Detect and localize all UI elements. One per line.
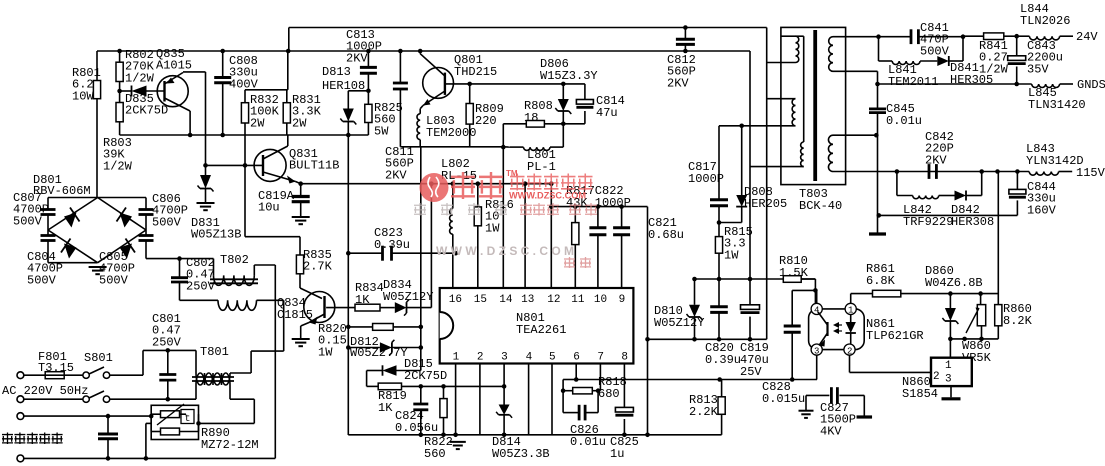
svg-text:1W: 1W — [724, 248, 739, 262]
wire pin1 to ground rail — [453, 364, 458, 438]
capacitor C807 — [13, 191, 98, 230]
resistor R819 — [367, 383, 421, 415]
svg-text:1K: 1K — [355, 293, 370, 307]
thermistor R890 lower element — [149, 414, 254, 435]
node Q831 base / R832 junction — [243, 163, 248, 168]
svg-text:2.2K: 2.2K — [689, 405, 719, 419]
pin numbers bottom row 1-8 — [453, 352, 628, 364]
resistor R803 — [103, 91, 133, 173]
svg-text:W W W . D Z S C . C O M: W W W . D Z S C . C O M — [436, 244, 574, 258]
wire secondary common column x=877.5 — [877, 84, 879, 233]
svg-text:TLN31420: TLN31420 — [1028, 98, 1086, 112]
inductor L802 (pin16) — [441, 157, 477, 288]
svg-text:2W: 2W — [292, 116, 307, 130]
ground below C819A — [292, 217, 310, 224]
inductor L845 — [1028, 84, 1086, 112]
svg-text:D813: D813 — [322, 65, 351, 79]
resistor R815 — [715, 223, 752, 280]
svg-text:T801: T801 — [200, 345, 229, 359]
svg-text:13: 13 — [521, 294, 534, 306]
svg-text:WWW.DZSC.COM: WWW.DZSC.COM — [509, 191, 586, 201]
resistor R831 — [283, 90, 321, 135]
wire Q835/Q831 base line (y=165.4) — [206, 164, 264, 166]
transformer T803 winding W5 115V secondary — [828, 133, 896, 172]
wire top rail (y=27.5) — [289, 28, 767, 52]
zener D831 — [191, 165, 241, 241]
label GNDS output — [1077, 78, 1105, 92]
zener D834 — [380, 181, 434, 315]
svg-text:3: 3 — [945, 374, 952, 386]
resistor R822 — [424, 386, 453, 461]
svg-text:3: 3 — [814, 346, 819, 356]
svg-text:YLN3142D: YLN3142D — [1026, 154, 1084, 168]
pin numbers top row 16-9 — [449, 294, 625, 306]
svg-text:500V: 500V — [13, 214, 43, 228]
wire aux rail (y=279) — [692, 277, 815, 282]
wire W2 bottom to D808/C817 — [719, 124, 796, 129]
wire W4 bottom to GNDS column — [833, 71, 880, 86]
zener D813 — [322, 65, 368, 137]
potentiometer W860 — [962, 294, 992, 365]
transformer T801 core — [192, 377, 234, 381]
svg-text:500V: 500V — [920, 44, 950, 58]
svg-text:680: 680 — [598, 387, 620, 401]
wire R801 column x=97 (B+ to bridge +) — [96, 51, 98, 198]
capacitor C842 — [925, 130, 954, 179]
svg-text:1/2W: 1/2W — [125, 71, 155, 85]
svg-text:1W: 1W — [485, 221, 500, 235]
svg-text:2KV: 2KV — [925, 153, 947, 167]
svg-text:S1854: S1854 — [902, 387, 938, 401]
capacitor C822 (pin10) — [589, 204, 606, 288]
wire W1 top to W3 top — [796, 36, 804, 142]
svg-text:2KV: 2KV — [667, 76, 689, 90]
wire 24V line (y=36) — [876, 34, 910, 39]
wire degauss lower line — [24, 423, 275, 460]
wire T802 right drop to degauss line — [274, 265, 276, 458]
bridge diode upper-right — [117, 208, 133, 228]
transformer T801 lower winding — [196, 373, 254, 423]
wire degauss upper line — [24, 415, 151, 417]
regulator N860 S1854 — [902, 339, 972, 401]
node C819A/R835 at emitter — [298, 181, 303, 186]
svg-text:500V: 500V — [99, 273, 129, 287]
node R802 top — [117, 49, 122, 54]
wire Q801 base line (y=83.9) — [445, 83, 585, 85]
wire aux ground rail (y=339.3) — [648, 338, 767, 340]
resistor R809 — [466, 82, 504, 147]
capacitor C808 — [214, 49, 258, 138]
svg-text:18: 18 — [524, 111, 538, 125]
watermark dzsc.com — [414, 169, 597, 268]
transistor Q831 — [254, 135, 339, 184]
hot ground below N860 pin3 — [942, 386, 961, 399]
capacitor C823 — [346, 226, 458, 261]
optocoupler phototransistor — [818, 312, 842, 347]
svg-text:15: 15 — [474, 294, 487, 306]
capacitor C844 — [877, 172, 1057, 218]
zener D860 — [925, 264, 983, 341]
thermistor R890 upper element — [151, 404, 194, 425]
node R802/R803/D835 junction — [117, 89, 122, 94]
svg-text:GNDS: GNDS — [1077, 78, 1105, 92]
wire 115V line (y=171.5) — [895, 169, 1030, 174]
svg-text:BCK-40: BCK-40 — [799, 199, 842, 213]
svg-text:16: 16 — [449, 294, 462, 306]
svg-text:TLP621GR: TLP621GR — [866, 329, 924, 343]
wire R861 output node — [948, 291, 998, 296]
svg-text:0.39u: 0.39u — [374, 238, 410, 252]
svg-text:2CK75D: 2CK75D — [404, 369, 447, 383]
transistor Q801 — [418, 49, 497, 109]
degauss bottom terminal — [17, 455, 24, 462]
svg-text:0.01u: 0.01u — [886, 114, 922, 128]
svg-text:2W: 2W — [250, 116, 265, 130]
resistor R802 — [116, 48, 155, 91]
wire pin3 feed line (y=386.4) — [419, 384, 507, 389]
svg-text:10W: 10W — [72, 89, 94, 103]
capacitor C801 — [152, 312, 182, 402]
wire Q831 emitter rail (y=183.7) — [301, 183, 552, 185]
ground below D831 — [197, 203, 215, 210]
capacitor C841 — [911, 21, 963, 58]
zener D812 — [346, 335, 423, 360]
svg-text:9: 9 — [619, 294, 626, 306]
optocoupler LED — [846, 314, 856, 344]
diode D835 — [120, 86, 169, 118]
IC N801 TEA2261 body — [440, 288, 634, 364]
resistor R817 (pin11) — [572, 204, 579, 288]
resistor R834 — [355, 281, 384, 311]
wire pin5 stub — [551, 364, 553, 435]
svg-text:115V: 115V — [1076, 166, 1105, 180]
inductor L841 + diode D841 branch — [879, 34, 994, 89]
svg-text:0.056u: 0.056u — [395, 421, 438, 435]
bridge diode lower-left — [61, 239, 77, 259]
optocoupler N861 body — [809, 309, 924, 350]
svg-text:0.39u: 0.39u — [705, 353, 741, 367]
transformer T803 winding W1 primary upper — [767, 36, 799, 62]
svg-text:W05Z12Y: W05Z12Y — [383, 290, 433, 304]
wire Q801 emitter rail (y=146.8) — [400, 146, 510, 148]
wire AC upper to C801/T801 — [110, 350, 196, 375]
zener D810 — [654, 279, 704, 342]
capacitor C827 — [806, 387, 872, 438]
svg-text:1: 1 — [945, 360, 952, 372]
wire pin14 riser — [501, 124, 506, 288]
svg-text:AC 220V 50Hz: AC 220V 50Hz — [2, 384, 88, 398]
transformer T802 primary winding — [214, 253, 276, 285]
svg-text:t: t — [185, 414, 191, 425]
bridge diode lower-right — [120, 239, 136, 259]
ground at C827 left — [799, 395, 814, 418]
resistor R816 (pin15) — [474, 181, 514, 288]
svg-text:1K: 1K — [378, 401, 393, 415]
resistor R835 — [296, 248, 332, 274]
svg-text:5W: 5W — [374, 124, 389, 138]
svg-text:T3.15: T3.15 — [38, 361, 74, 375]
svg-text:2KV: 2KV — [385, 168, 407, 182]
node D831 junction — [203, 163, 208, 168]
capacitor C820 — [705, 279, 741, 367]
wire pin12 riser — [549, 181, 554, 288]
svg-text:220: 220 — [475, 114, 497, 128]
thermistor R890 box — [151, 405, 258, 452]
transformer T803 winding W2 feedback — [767, 99, 796, 126]
svg-text:3: 3 — [501, 352, 508, 364]
svg-text:W04Z6.8B: W04Z6.8B — [925, 276, 983, 290]
svg-text:7: 7 — [597, 352, 604, 364]
svg-text:2CK75D: 2CK75D — [125, 104, 168, 118]
wire GNDS line (y=84) — [878, 83, 1032, 85]
inductor L801 — [510, 124, 563, 174]
svg-text:0.015u: 0.015u — [762, 392, 805, 406]
wire T802 secondary to T801 link — [251, 300, 284, 351]
wire Q835 emitter to D831/Q831 base node — [183, 72, 206, 165]
inductor L842 + diode D842 branch — [897, 172, 994, 230]
svg-text:2.7K: 2.7K — [303, 260, 333, 274]
wire W860 wiper rail (y=338.9) — [950, 337, 983, 342]
resistor R841 — [963, 33, 1017, 77]
svg-text:TRF9229: TRF9229 — [903, 215, 953, 229]
capacitor C812 — [667, 25, 696, 90]
diode D808 — [717, 126, 788, 225]
capacitor across degauss lines — [98, 414, 118, 461]
svg-text:500V: 500V — [27, 273, 57, 287]
AC terminal lower — [17, 396, 24, 403]
svg-text:TEA2261: TEA2261 — [516, 323, 566, 337]
capacitor C811 — [385, 49, 414, 183]
wire pin13 riser — [523, 181, 528, 288]
transformer T802 secondary winding — [180, 300, 284, 310]
label AC 220V 50Hz — [2, 384, 88, 398]
label 24V output — [1076, 30, 1098, 44]
svg-text:0.68u: 0.68u — [648, 228, 684, 242]
svg-text:0.01u: 0.01u — [570, 435, 606, 449]
svg-text:1/2W: 1/2W — [979, 62, 1009, 76]
wire control rail (y=135) R803 to R825 — [120, 134, 369, 136]
wire opto pin2 to N860 pin2 — [850, 355, 932, 372]
fuse F801 — [24, 350, 74, 379]
resistor R861 — [866, 262, 950, 297]
inductor L843 — [1026, 142, 1084, 175]
svg-text:1.5K: 1.5K — [779, 266, 809, 280]
wire R832 to R835 link — [245, 165, 300, 255]
transistor Q835 — [156, 47, 192, 135]
wire R831/R832 top tie (y=89.8) — [245, 49, 291, 90]
inductor L844 — [1014, 2, 1073, 40]
svg-text:TEM2000: TEM2000 — [426, 126, 476, 140]
capacitor C817 — [688, 126, 728, 223]
svg-text:500V: 500V — [152, 215, 182, 229]
wire pin2 stub — [479, 364, 481, 435]
transformer T803 frame — [781, 27, 846, 213]
capacitor C819 — [740, 279, 769, 379]
svg-text:TLN2026: TLN2026 — [1020, 14, 1070, 28]
optocoupler pin 3 circle — [811, 344, 822, 356]
svg-text:BULT11B: BULT11B — [289, 159, 339, 173]
ground at bridge bottom — [89, 267, 107, 274]
capacitor C845 — [869, 102, 922, 128]
wire B+ drop to W3 (x=750) — [749, 51, 751, 279]
svg-text:A1015: A1015 — [156, 59, 192, 73]
svg-text:2KV: 2KV — [346, 51, 368, 65]
svg-text:4KV: 4KV — [820, 424, 842, 438]
capacitor C843 — [1008, 36, 1063, 86]
optocoupler pin 1 circle — [845, 303, 856, 315]
wire IC ground rail (y=434.8) — [348, 433, 721, 438]
svg-text:10u: 10u — [258, 201, 280, 215]
hot ground bar at secondary common — [869, 232, 886, 235]
capacitor C802 — [171, 256, 216, 300]
svg-text:11: 11 — [571, 294, 585, 306]
wire opto pin4 riser — [816, 290, 818, 303]
capacitor C824 — [395, 386, 438, 435]
svg-text:24V: 24V — [1076, 30, 1098, 44]
wire primary ground column x=766.7 — [766, 28, 768, 340]
svg-text:TEM2011: TEM2011 — [888, 75, 938, 89]
capacitor C806 — [98, 192, 188, 230]
switch S801 upper — [64, 351, 113, 378]
transformer T803 core — [813, 30, 817, 181]
svg-text:W05Z12Y: W05Z12Y — [654, 316, 704, 330]
svg-text:8.2K: 8.2K — [1003, 314, 1033, 328]
capacitor C814 — [563, 84, 625, 124]
transistor Q834 — [277, 274, 335, 339]
bridge rectifier D801 diamond — [33, 173, 146, 263]
capacitor C825 (pin8) — [610, 364, 639, 462]
svg-text:W15Z3.3Y: W15Z3.3Y — [540, 69, 598, 83]
svg-text:C1815: C1815 — [277, 308, 313, 322]
resistor R820 — [318, 322, 423, 359]
diode D815 — [367, 357, 448, 386]
transformer T802 core — [210, 279, 258, 283]
resistor R825 — [365, 91, 403, 139]
node Q835 collector on rail — [188, 133, 193, 138]
ground below Q834 emitter — [292, 339, 310, 346]
capacitor C813 — [346, 28, 382, 93]
svg-text:2: 2 — [933, 371, 940, 383]
svg-text:47u: 47u — [596, 106, 618, 120]
resistor R818 (pins 6-7) — [561, 364, 627, 402]
bridge diode upper-left — [64, 208, 80, 228]
optocoupler pin 4 circle — [811, 303, 822, 315]
ground at pin1 — [450, 442, 466, 449]
svg-text:1/2W: 1/2W — [103, 159, 133, 173]
svg-text:1000P: 1000P — [688, 172, 724, 186]
optocoupler pin 2 circle — [844, 344, 855, 356]
transformer T803 winding W3 primary lower — [750, 142, 804, 167]
resistor R813 — [689, 380, 725, 435]
capacitor C826 — [563, 391, 606, 449]
wire Q834 base line — [326, 307, 355, 309]
svg-text:T802: T802 — [220, 253, 249, 267]
svg-text:5: 5 — [549, 352, 556, 364]
svg-text:S801: S801 — [84, 351, 113, 365]
svg-text:12: 12 — [547, 294, 560, 306]
resistor R810 — [779, 254, 818, 303]
svg-text:MZ72-12M: MZ72-12M — [201, 438, 259, 452]
svg-text:25V: 25V — [740, 365, 762, 379]
resistor R801 — [72, 66, 101, 103]
svg-text:1u: 1u — [610, 447, 624, 461]
transformer T801 upper winding — [196, 345, 251, 385]
svg-text:HER108: HER108 — [322, 79, 365, 93]
svg-text:W05Z3.3B: W05Z3.3B — [492, 447, 550, 461]
svg-text:35V: 35V — [1027, 62, 1049, 76]
resistor R832 — [241, 90, 279, 166]
svg-text:560: 560 — [424, 447, 446, 461]
svg-text:6.8K: 6.8K — [866, 274, 896, 288]
wire startup column x=348.3 below rail-135 — [347, 135, 349, 435]
svg-text:250V: 250V — [152, 335, 182, 349]
svg-text:2: 2 — [847, 346, 852, 356]
svg-text:1: 1 — [453, 352, 460, 364]
svg-text:250V: 250V — [186, 279, 216, 293]
svg-text:HER308: HER308 — [951, 215, 994, 229]
svg-text:1W: 1W — [318, 345, 333, 359]
wire pin4 stub — [528, 364, 530, 435]
capacitor C804 — [27, 230, 98, 287]
switch S801 lower — [24, 391, 196, 402]
label to degaussing coil — [2, 433, 63, 445]
svg-text:2: 2 — [477, 352, 484, 364]
wire opto pin1 to R861 — [851, 294, 873, 304]
wire opto pin3 riser — [816, 355, 818, 379]
label R817C822 — [566, 184, 631, 210]
AC terminal upper — [17, 372, 24, 379]
svg-text:W05Z2.7Y: W05Z2.7Y — [350, 346, 408, 360]
resistor R808 — [503, 99, 565, 127]
zener D806 — [540, 57, 598, 124]
wire current-sense column x=420.8 from Q801 emitter rail — [420, 147, 422, 371]
svg-text:THD215: THD215 — [454, 65, 497, 79]
wire B+ rail (y=51) from R801 top to primary drop — [97, 50, 750, 52]
wire ground column x=647 — [645, 207, 650, 438]
svg-text:HER205: HER205 — [744, 197, 787, 211]
svg-text:14: 14 — [499, 294, 513, 306]
wire pin6 sense line (y=379.5) — [574, 364, 817, 382]
svg-text:4: 4 — [526, 352, 533, 364]
svg-text:8: 8 — [621, 352, 628, 364]
svg-text:6: 6 — [573, 352, 580, 364]
capacitor C819A — [258, 184, 310, 217]
capacitor C828 — [762, 290, 815, 406]
svg-text:W05Z13B: W05Z13B — [191, 228, 241, 242]
inductor L803 — [417, 109, 476, 147]
svg-text:10: 10 — [594, 294, 607, 306]
zener D814 (pin3) — [492, 364, 550, 462]
svg-text:160V: 160V — [1027, 203, 1057, 217]
resistor R860 — [982, 172, 1033, 339]
wire cap bus (y=206.6) — [551, 206, 647, 208]
transformer T803 winding W4 24V secondary — [827, 36, 879, 71]
degauss terminal — [17, 413, 24, 420]
capacitor C805 — [99, 230, 154, 287]
capacitor C821 (pin9) — [613, 204, 684, 288]
svg-text:PL-1: PL-1 — [527, 160, 556, 174]
label 115V output — [1076, 166, 1105, 180]
wire bridge to C802/T802 (y=258.6) — [146, 258, 214, 260]
